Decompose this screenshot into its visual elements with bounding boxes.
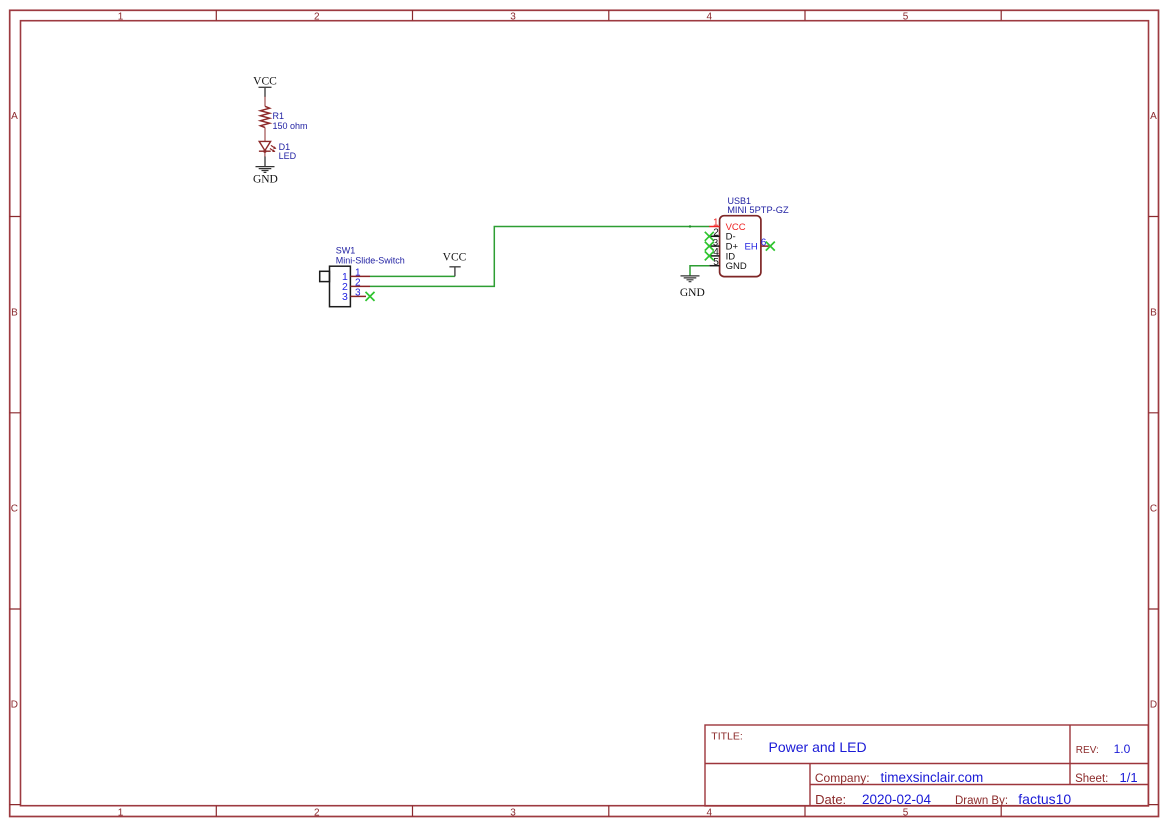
switch SW1 designator <box>336 245 356 255</box>
USB1 pin 4 stub <box>709 255 719 257</box>
connector USB1 designator <box>728 196 752 206</box>
svg-text:6: 6 <box>761 238 767 249</box>
USB1 pin 5 name GND <box>726 261 747 272</box>
svg-text:2: 2 <box>314 807 320 818</box>
USB1 pin 6 stub <box>761 245 769 247</box>
USB1 pin 1 name VCC <box>726 222 746 233</box>
date value 2020-02-04 <box>862 792 932 807</box>
value 150 ohm <box>273 121 308 131</box>
svg-text:timexsinclair.com: timexsinclair.com <box>881 770 984 785</box>
label R1 <box>273 111 285 121</box>
net label VCC (top) <box>253 75 277 87</box>
svg-text:1: 1 <box>118 807 124 818</box>
SW1 pin 1 stub <box>350 275 370 277</box>
no-connect flag USB1 pin 6 <box>766 242 775 251</box>
rev value 1.0 <box>1114 742 1131 756</box>
wire USB1 pin5 to GND <box>690 266 709 276</box>
svg-text:4: 4 <box>707 11 713 22</box>
svg-text:R1: R1 <box>273 111 285 121</box>
title block label Company: <box>815 771 870 785</box>
SW1 pin 1 number <box>355 267 361 278</box>
svg-text:1.0: 1.0 <box>1114 742 1131 756</box>
svg-text:TITLE:: TITLE: <box>711 730 743 742</box>
no-connect flag USB1 pin 2 <box>705 232 714 241</box>
USB1 pin 2 stub <box>709 235 719 237</box>
switch SW1 value Mini-Slide-Switch <box>336 255 405 265</box>
wire SW1 pin1 to VCC <box>370 275 455 277</box>
company value timexsinclair.com <box>881 770 984 785</box>
svg-text:SW1: SW1 <box>336 245 356 255</box>
USB1 pin 6 number <box>761 238 767 249</box>
svg-text:2: 2 <box>314 11 320 22</box>
svg-text:4: 4 <box>707 807 713 818</box>
title block <box>705 725 1148 806</box>
USB1 pin 1 number <box>713 218 719 229</box>
SW1 pin 3 number <box>355 287 361 298</box>
svg-text:D: D <box>11 700 18 711</box>
svg-text:3: 3 <box>342 291 348 303</box>
svg-text:Date:: Date: <box>815 792 846 807</box>
svg-text:Power and LED: Power and LED <box>769 739 867 755</box>
no-connect flag SW1 pin 3 <box>366 292 375 301</box>
SW1 pin 3 stub <box>350 295 366 297</box>
svg-text:REV:: REV: <box>1076 745 1099 756</box>
USB1 pin 5 stub <box>709 265 719 267</box>
USB1 pin 1 stub <box>709 226 719 228</box>
LED D1 <box>259 141 275 156</box>
svg-text:B: B <box>11 307 18 318</box>
title block label REV: <box>1076 745 1099 756</box>
sheet value 1/1 <box>1120 770 1138 785</box>
USB1 pin 2 number <box>713 228 719 239</box>
USB1 pin 3 name D+ <box>726 242 739 253</box>
svg-text:A: A <box>11 111 18 122</box>
svg-text:5: 5 <box>903 11 909 22</box>
svg-text:5: 5 <box>903 807 909 818</box>
SW1 pin 3 name <box>342 291 348 303</box>
ground symbol GND (USB) <box>681 276 700 282</box>
svg-text:C: C <box>11 504 18 515</box>
svg-text:C: C <box>1150 504 1157 515</box>
svg-text:Company:: Company: <box>815 771 870 785</box>
svg-text:VCC: VCC <box>443 252 467 264</box>
SW1 pin 1 name <box>342 271 348 283</box>
svg-text:1/1: 1/1 <box>1120 770 1138 785</box>
svg-text:LED: LED <box>279 151 297 161</box>
USB1 pin 4 name ID <box>726 251 736 262</box>
svg-text:5: 5 <box>713 257 719 268</box>
value LED <box>279 151 297 161</box>
USB1 pin 3 stub <box>709 245 719 247</box>
no-connect flag USB1 pin 3 <box>705 242 714 251</box>
svg-text:Drawn By:: Drawn By: <box>955 795 1008 807</box>
net label GND (top) <box>253 173 278 185</box>
no-connect flag USB1 pin 4 <box>705 251 714 260</box>
title block label Drawn By: <box>955 795 1008 807</box>
svg-text:Mini-Slide-Switch: Mini-Slide-Switch <box>336 255 405 265</box>
title value Power and LED <box>769 739 867 755</box>
USB1 pin 5 number <box>713 257 719 268</box>
connector USB1 body <box>720 216 761 277</box>
svg-text:VCC: VCC <box>253 75 277 87</box>
resistor R1 <box>260 97 269 142</box>
svg-text:3: 3 <box>510 11 516 22</box>
svg-text:3: 3 <box>355 287 361 298</box>
svg-text:GND: GND <box>680 287 705 299</box>
switch SW1 body <box>320 266 351 307</box>
svg-text:2020-02-04: 2020-02-04 <box>862 792 932 807</box>
drawn-by value factus10 <box>1018 791 1071 807</box>
svg-text:150 ohm: 150 ohm <box>273 121 308 131</box>
power symbol VCC (switch) <box>449 267 460 277</box>
label D1 <box>279 142 291 152</box>
ground symbol GND (top) <box>256 167 275 173</box>
svg-text:D: D <box>1150 700 1157 711</box>
title block label Date: <box>815 792 846 807</box>
svg-text:A: A <box>1150 111 1157 122</box>
svg-text:EH: EH <box>744 242 757 253</box>
USB1 pin 4 number <box>713 247 719 258</box>
USB1 pin 3 number <box>713 237 718 248</box>
svg-text:factus10: factus10 <box>1018 791 1071 807</box>
svg-text:GND: GND <box>253 173 278 185</box>
title block label TITLE: <box>711 730 743 742</box>
SW1 pin 2 name <box>342 281 348 293</box>
SW1 pin 2 stub <box>350 285 370 287</box>
USB1 pin 2 name D- <box>726 232 736 243</box>
svg-text:GND: GND <box>726 261 747 272</box>
wire SW1 pin2 to USB1 pin1 <box>370 227 710 287</box>
net label VCC (switch) <box>443 252 467 264</box>
wire junction at x=690 <box>689 225 691 227</box>
svg-text:3: 3 <box>510 807 516 818</box>
net label GND (USB) <box>680 287 705 299</box>
power symbol VCC (top) <box>259 87 272 97</box>
connector USB1 value MINI 5PTP-GZ <box>727 205 789 215</box>
USB1 pin 6 name EH <box>744 242 757 253</box>
svg-text:B: B <box>1150 307 1157 318</box>
wire LED to GND <box>264 157 266 167</box>
title block label Sheet: <box>1075 773 1108 785</box>
svg-text:Sheet:: Sheet: <box>1075 773 1108 785</box>
SW1 pin 2 number <box>355 277 361 288</box>
svg-text:MINI 5PTP-GZ: MINI 5PTP-GZ <box>727 205 789 215</box>
svg-text:1: 1 <box>118 11 124 22</box>
